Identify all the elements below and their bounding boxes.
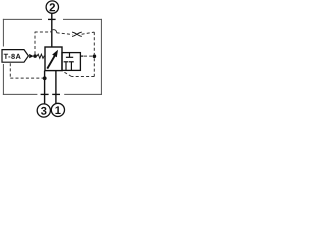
svg-text:3: 3 (41, 106, 47, 118)
svg-text:1: 1 (55, 105, 61, 117)
svg-text:T-8A: T-8A (4, 52, 22, 61)
svg-text:2: 2 (49, 2, 55, 14)
